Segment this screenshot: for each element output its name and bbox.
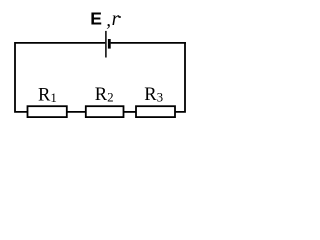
wire between R1 and R2 bbox=[67, 111, 86, 113]
wire top-right segment bbox=[111, 42, 186, 44]
svg-text:,: , bbox=[106, 10, 111, 31]
battery cell E,r : short thick plate bbox=[108, 39, 111, 49]
wire right vertical + bottom-right stub bbox=[175, 42, 185, 112]
resistor R1 box bbox=[28, 106, 67, 117]
svg-text:r: r bbox=[112, 9, 120, 30]
svg-text:R1: R1 bbox=[38, 85, 57, 105]
wire between R2 and R3 bbox=[124, 111, 137, 113]
wire top-left segment bbox=[15, 42, 105, 44]
svg-text:R2: R2 bbox=[95, 85, 114, 105]
svg-text:E: E bbox=[90, 9, 102, 29]
wire left vertical + bottom-left stub bbox=[15, 42, 28, 112]
resistor R2 box bbox=[86, 106, 124, 117]
svg-text:R3: R3 bbox=[144, 85, 163, 105]
battery cell E,r : long thin plate bbox=[105, 31, 107, 58]
resistor R3 box bbox=[136, 106, 175, 117]
label r terminal dot bbox=[119, 16, 121, 18]
